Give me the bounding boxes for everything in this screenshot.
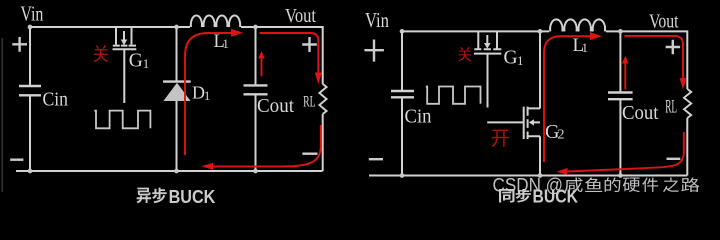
transistor G1 (right) arrow head [484, 43, 491, 49]
wire: Cout branch top (right) [619, 31, 621, 92]
watermark char 咸 [564, 177, 582, 192]
wire: right ckt bottom rail [369, 175, 687, 177]
red arrowhead left at bottom (left) [201, 163, 213, 170]
transistor G2 mosfet body [487, 31, 540, 175]
red arrowhead left at bottom (right) [557, 168, 568, 175]
svg-text:1: 1 [582, 40, 589, 55]
node: G2 bottom junction [538, 173, 543, 178]
transistor G1 (right) mosfet body [474, 31, 501, 107]
svg-text:Vin: Vin [365, 8, 389, 32]
polarity plus (right input) [364, 40, 384, 62]
caption bu (sync) [516, 189, 531, 203]
watermark char 件 [642, 177, 658, 192]
wire: left ckt right rail lower [322, 114, 324, 171]
red current path: into output branch (left) [260, 33, 319, 73]
red arrowhead down at output (right) [680, 78, 687, 89]
transistor G1 (left) arrow head [121, 40, 128, 46]
wire: right ckt left rail upper [401, 31, 403, 91]
node: Cout bottom R junction [618, 173, 623, 178]
resistor RL (right) zigzag [684, 89, 691, 118]
svg-text:1: 1 [143, 56, 150, 71]
red current arrow shaft up at Cout (left) [261, 58, 263, 77]
caption tong (sync) [499, 189, 514, 202]
screen edge artifact line [1, 38, 3, 192]
polarity minus (right output) [667, 158, 681, 160]
node: diode top junction [174, 25, 179, 30]
red current path: bottom return (left) [213, 125, 321, 167]
svg-text:1: 1 [517, 53, 524, 68]
polarity plus (left output) [302, 37, 317, 52]
wire: diode branch top [176, 27, 178, 82]
node: left bottom-left junction [28, 169, 33, 174]
red arrowhead up at Cout (right) [622, 56, 629, 64]
wire: diode branch bottom [176, 101, 178, 171]
red arrowhead right under L1 (left) [231, 29, 243, 37]
caption bu (async) [152, 188, 167, 204]
wire: left ckt left rail upper [29, 27, 31, 86]
wire: left ckt left rail lower [29, 95, 31, 171]
svg-text:G: G [504, 48, 518, 69]
red current path: up G2 branch through L1 (right) [544, 36, 590, 162]
polarity minus (left output) [302, 152, 317, 154]
svg-text:1: 1 [204, 89, 210, 103]
wire: right ckt left rail lower [401, 97, 403, 175]
node: Cout top L junction [253, 25, 258, 30]
wire: left ckt top rail [30, 26, 190, 28]
svg-text:Vout: Vout [649, 11, 679, 33]
svg-text:RL: RL [303, 93, 316, 110]
diode D1 triangle [163, 83, 190, 101]
polarity minus (right input) [369, 158, 383, 160]
node: left top-left junction [28, 25, 33, 30]
diode D1 cathode bar [163, 80, 191, 82]
red arrowhead right under L1 (right) [590, 32, 602, 40]
transistor G2 arrow head [529, 119, 534, 125]
svg-text:Cout: Cout [257, 95, 294, 117]
red arrowhead up at Cout (left) [258, 51, 265, 59]
label guan OFF (left, red) [93, 45, 108, 62]
svg-text:BUCK: BUCK [533, 186, 579, 206]
svg-text:2: 2 [558, 128, 565, 143]
svg-text:Vout: Vout [285, 5, 316, 27]
red current arrow shaft up at Cout (right) [624, 63, 626, 90]
label kai ON (red) [492, 130, 509, 147]
node: right bottom-left junction [400, 173, 405, 178]
watermark char 之 [663, 177, 679, 192]
svg-text:BUCK: BUCK [169, 187, 216, 206]
label guan OFF (right, red) [458, 47, 472, 61]
polarity minus (left input) [10, 158, 23, 160]
wire: right ckt right rail lower [686, 118, 688, 176]
svg-text:1: 1 [223, 37, 229, 51]
watermark char 路 [681, 177, 699, 192]
transistor G1 (left) mosfet body [113, 27, 137, 103]
node: diode bottom junction [174, 169, 179, 174]
wire: Cout branch bottom (right) [619, 99, 621, 175]
wire: left ckt top-right corner [241, 27, 323, 84]
gate drive square wave (right) [426, 87, 481, 104]
wire: Cout branch bottom (left) [255, 94, 257, 171]
svg-text:G: G [129, 51, 143, 72]
red current path: into output branch (right) [625, 36, 684, 79]
red current path: diode loop up through L1 (left) [185, 33, 232, 155]
capacitor Cout (right) plates [608, 93, 633, 100]
node: Cout bottom L junction [253, 169, 258, 174]
polarity plus (left input) [12, 37, 27, 52]
svg-text:Cout: Cout [622, 102, 659, 124]
inductor L1 (left) [191, 16, 240, 27]
node: Cout top R junction [618, 29, 623, 34]
wire: Cout branch top (left) [255, 27, 257, 85]
caption yi (async) [137, 188, 152, 204]
watermark char 的 [605, 177, 621, 192]
wire: left ckt bottom rail [16, 170, 323, 172]
capacitor Cout (left) plates [244, 85, 268, 94]
node: G2 top junction [538, 29, 543, 34]
inductor L1 (right) [550, 19, 605, 31]
svg-text:RL: RL [665, 97, 677, 117]
capacitor Cin (left) plates [19, 86, 41, 95]
watermark char 鱼 [585, 177, 602, 192]
watermark char 硬 [623, 178, 640, 192]
red arrowhead down at output (left) [315, 73, 322, 85]
svg-text:Vin: Vin [20, 2, 43, 26]
resistor RL (left) zigzag [319, 84, 326, 114]
capacitor Cin (right) plates [391, 91, 414, 97]
svg-text:Cin: Cin [43, 89, 69, 110]
gate drive square wave (left) [94, 111, 150, 129]
wire: right ckt top rail [402, 30, 549, 32]
red current path: bottom return (right) [567, 132, 684, 172]
svg-text:Cin: Cin [405, 107, 432, 128]
node: right top-left junction [400, 29, 405, 34]
wire: right ckt top-right corner [606, 31, 687, 89]
polarity plus (right output) [666, 40, 681, 55]
